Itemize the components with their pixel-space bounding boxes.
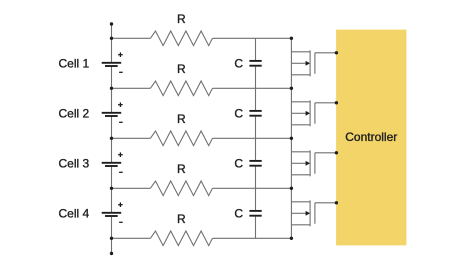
svg-text:Cell 1: Cell 1 xyxy=(59,57,90,71)
svg-text:Controller: Controller xyxy=(345,130,397,144)
svg-text:Cell 3: Cell 3 xyxy=(59,157,90,171)
svg-text:R: R xyxy=(177,112,186,126)
svg-text:C: C xyxy=(234,207,243,221)
svg-text:C: C xyxy=(234,157,243,171)
svg-text:R: R xyxy=(177,162,186,176)
svg-text:R: R xyxy=(177,62,186,76)
svg-text:Cell 4: Cell 4 xyxy=(59,207,90,221)
svg-text:C: C xyxy=(234,57,243,71)
svg-text:Cell 2: Cell 2 xyxy=(59,107,90,121)
svg-text:R: R xyxy=(177,212,186,226)
svg-text:R: R xyxy=(177,12,186,26)
svg-text:C: C xyxy=(234,107,243,121)
